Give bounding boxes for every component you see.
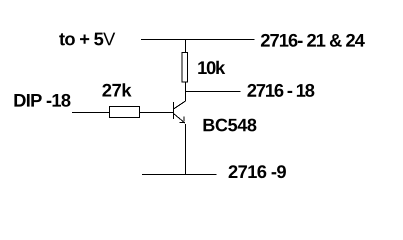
transistor Q1 base bar xyxy=(173,102,175,119)
transistor Q1 emitter arrow barb vertical xyxy=(183,117,185,122)
label BC548 xyxy=(204,119,257,132)
label 27k xyxy=(102,83,131,96)
label 10k xyxy=(198,61,225,74)
resistor R2 27k body xyxy=(110,107,140,118)
label 2716 -9 xyxy=(229,165,286,178)
transistor Q1 emitter diagonal xyxy=(174,114,186,124)
label 2716 - 18 xyxy=(247,84,314,97)
wire 2716-9 xyxy=(142,174,217,176)
label 2716-21 & 24 xyxy=(261,34,365,47)
label DIP -18 xyxy=(14,94,70,107)
wire R2 to base xyxy=(140,112,174,114)
wire +5V rail xyxy=(141,39,255,41)
wire rail stub to R1 xyxy=(185,40,187,53)
wire emitter vertical xyxy=(185,124,187,175)
wire DIP-18 to R2 xyxy=(72,112,110,114)
wire R1 bottom to collector node xyxy=(185,82,187,92)
transistor Q1 collector diagonal xyxy=(174,101,186,109)
transistor Q1 emitter arrow barb horizontal xyxy=(180,122,185,124)
resistor R1 10k body xyxy=(182,53,188,83)
wire node to 2716-18 xyxy=(186,91,241,93)
wire collector vertical xyxy=(185,92,187,102)
label to + 5V xyxy=(59,33,115,46)
